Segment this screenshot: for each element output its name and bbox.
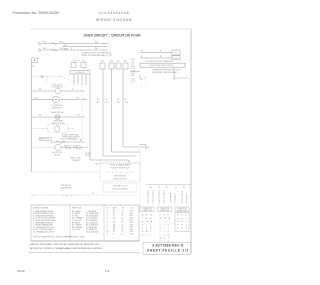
svg-text:WIRE RECEPT.: WIRE RECEPT. xyxy=(61,185,72,187)
svg-text:P2: P2 xyxy=(96,164,98,166)
svg-text:14: 14 xyxy=(122,231,124,233)
svg-text:10 W: 10 W xyxy=(132,81,136,83)
svg-text:BK: BK xyxy=(117,99,119,101)
svg-text:BK: BK xyxy=(125,99,127,101)
svg-text:RL3: RL3 xyxy=(101,61,104,63)
svg-text:P1: P1 xyxy=(144,78,146,80)
svg-text:WIRE CODE: WIRE CODE xyxy=(72,208,81,210)
svg-text:RL5: RL5 xyxy=(117,61,120,63)
svg-text:ATTENTION: COUPER LE COURANT A: ATTENTION: COUPER LE COURANT AVANT D'ENT… xyxy=(30,247,103,250)
svg-text:ELEMENT: ELEMENT xyxy=(72,160,79,162)
svg-text:07/08: 07/08 xyxy=(17,269,25,273)
svg-text:PK - PINK WIRE: PK - PINK WIRE xyxy=(86,215,98,217)
svg-text:OVEN DOOR: OVEN DOOR xyxy=(52,84,63,86)
svg-text:BK-2: BK-2 xyxy=(73,145,77,147)
svg-text:4 1 2: 4 1 2 xyxy=(142,234,152,236)
svg-text:W-2: W-2 xyxy=(77,115,80,117)
svg-text:MOTOR: MOTOR xyxy=(54,155,61,157)
svg-text:1: 1 xyxy=(107,211,108,213)
svg-text:RL1: RL1 xyxy=(73,61,76,63)
svg-text:CLK2: CLK2 xyxy=(174,58,178,60)
svg-text:4 1 4: 4 1 4 xyxy=(177,215,187,217)
svg-text:BK LOCK: BK LOCK xyxy=(85,153,91,155)
svg-text:P8: P8 xyxy=(158,187,160,189)
svg-text:WIRING DIAGRAM: WIRING DIAGRAM xyxy=(96,18,132,22)
svg-text:3 - OVEN SENSOR PROBE: 3 - OVEN SENSOR PROBE xyxy=(33,215,53,217)
svg-text:Y-1: Y-1 xyxy=(86,147,88,149)
svg-text:5: 5 xyxy=(107,220,108,222)
svg-text:SWITCH: SWITCH xyxy=(85,155,91,157)
svg-text:1 4 R: 1 4 R xyxy=(142,228,153,230)
svg-text:K 2 4: K 2 4 xyxy=(160,234,170,236)
svg-text:V - VIOLET: V - VIOLET xyxy=(72,229,80,231)
svg-text:CONNECTEUR: CONNECTEUR xyxy=(142,210,152,212)
svg-text:CFC3348409B: CFC3348409B xyxy=(98,11,129,15)
svg-text:4: 4 xyxy=(107,217,108,219)
svg-text:BK-2: BK-2 xyxy=(60,48,64,50)
svg-text:4 1 4: 4 1 4 xyxy=(160,241,170,243)
svg-text:14: 14 xyxy=(122,211,124,213)
svg-text:CONNECTEUR: CONNECTEUR xyxy=(177,210,187,212)
svg-text:1 2 3 4 5 6 7 8 9 10: 1 2 3 4 5 6 7 8 9 10 xyxy=(107,172,133,174)
svg-text:K 2 2: K 2 2 xyxy=(142,224,152,226)
svg-text:BK: BK xyxy=(97,99,99,101)
svg-text:CW.28: CW.28 xyxy=(105,102,109,104)
svg-text:W-2: W-2 xyxy=(76,97,79,99)
svg-text:T1 T2 T3: T1 T2 T3 xyxy=(62,196,72,198)
svg-text:BK-1: BK-1 xyxy=(60,42,64,44)
svg-text:K 1 K: K 1 K xyxy=(160,221,171,223)
svg-text:BK: BK xyxy=(106,99,108,101)
svg-text:Publication No: 5995434099: Publication No: 5995434099 xyxy=(13,11,59,15)
svg-text:RL2: RL2 xyxy=(83,61,86,63)
svg-text:14: 14 xyxy=(122,229,124,231)
svg-text:BR - BROWN: BR - BROWN xyxy=(72,227,83,229)
svg-text:Y - YELLOW: Y - YELLOW xyxy=(72,220,82,222)
svg-text:11: 11 xyxy=(107,233,109,235)
svg-text:4 2 1: 4 2 1 xyxy=(160,228,170,230)
svg-text:CODE: CODE xyxy=(112,208,116,210)
svg-text:2 - BROIL ELEMENT 3400W: 2 - BROIL ELEMENT 3400W xyxy=(33,213,54,215)
svg-text:14: 14 xyxy=(122,224,124,226)
svg-text:R-1: R-1 xyxy=(64,45,67,47)
svg-text:BROIL ELEMENT W-2: BROIL ELEMENT W-2 xyxy=(60,139,76,141)
svg-text:14: 14 xyxy=(122,217,124,219)
svg-text:K1 K2 K3 K4: K1 K2 K3 K4 xyxy=(75,72,84,74)
svg-text:R R 2: R R 2 xyxy=(177,224,188,226)
svg-text:7 BK: 7 BK xyxy=(132,73,135,75)
svg-text:—: — xyxy=(50,56,52,58)
svg-text:W 4 R: W 4 R xyxy=(160,238,171,240)
svg-text:4: 4 xyxy=(141,86,142,88)
svg-text:K R 4: K R 4 xyxy=(177,221,188,223)
svg-text:BU - BLUE: BU - BLUE xyxy=(72,222,80,224)
svg-text:1-6: 1-6 xyxy=(105,269,110,273)
svg-text:BK-1: BK-1 xyxy=(43,42,47,44)
svg-text:14: 14 xyxy=(122,222,124,224)
svg-text:4 BK: 4 BK xyxy=(132,66,135,68)
svg-text:CW.28: CW.28 xyxy=(116,102,120,104)
svg-text:P9: P9 xyxy=(166,187,168,189)
svg-text:14: 14 xyxy=(122,213,124,215)
svg-text:3: 3 xyxy=(103,50,104,52)
svg-text:SONDE DU FOUR: SONDE DU FOUR xyxy=(113,178,127,180)
svg-text:R W 4: R W 4 xyxy=(177,228,188,230)
svg-text:COL: COL xyxy=(130,208,133,210)
svg-text:1 1 4: 1 1 4 xyxy=(160,231,170,233)
svg-text:P4: P4 xyxy=(183,187,185,189)
svg-text:14: 14 xyxy=(122,215,124,217)
svg-text:CONNECTEUR: CONNECTEUR xyxy=(160,210,170,212)
svg-text:W-2: W-2 xyxy=(95,48,98,50)
svg-text:3-82T1888 REV:A: 3-82T1888 REV:A xyxy=(152,244,184,248)
svg-text:W - WHITE: W - WHITE xyxy=(72,213,80,215)
svg-text:14: 14 xyxy=(122,220,124,222)
svg-text:9: 9 xyxy=(107,229,108,231)
svg-text:9 BK: 9 BK xyxy=(132,79,135,81)
svg-text:CONNECTOR: CONNECTOR xyxy=(143,208,152,210)
svg-text:10: 10 xyxy=(107,231,109,233)
svg-text:W W A: W W A xyxy=(160,217,172,220)
svg-text:2: 2 xyxy=(107,213,108,215)
svg-text:8: 8 xyxy=(107,227,108,229)
svg-text:CONVECTION: CONVECTION xyxy=(52,105,63,107)
svg-text:3: 3 xyxy=(107,215,108,217)
svg-text:A B B: A B B xyxy=(142,214,153,217)
svg-text:LEGEND / LEGENDE: LEGEND / LEGENDE xyxy=(33,208,49,210)
svg-text:T: T xyxy=(145,86,146,88)
svg-text:4 W 1: 4 W 1 xyxy=(177,218,188,220)
svg-text:P5: P5 xyxy=(150,187,152,189)
svg-text:14: 14 xyxy=(122,227,124,229)
svg-text:A A 1: A A 1 xyxy=(142,230,152,233)
svg-text:1 K R: 1 K R xyxy=(142,218,153,220)
svg-text:6: 6 xyxy=(107,222,108,224)
svg-text:BK-2: BK-2 xyxy=(35,97,39,99)
svg-text:W-1: W-1 xyxy=(95,42,98,44)
svg-text:L2: L2 xyxy=(70,48,72,50)
svg-text:BROIL / GRILL: BROIL / GRILL xyxy=(71,158,81,160)
svg-text:2 K K: 2 K K xyxy=(160,215,171,217)
svg-text:INTER. DE VERROUILLAGE N.O. –: INTER. DE VERROUILLAGE N.O. – P7 xyxy=(82,54,112,57)
svg-text:DOOR LOCK: DOOR LOCK xyxy=(52,152,63,154)
svg-text:RL6: RL6 xyxy=(124,61,127,63)
svg-text:4: 4 xyxy=(186,76,187,78)
svg-text:CAUTION: DISCONNECT ELECTRICAL: CAUTION: DISCONNECT ELECTRICAL POWER BEF… xyxy=(30,243,101,246)
svg-text:OVEN SENSOR: OVEN SENSOR xyxy=(114,176,127,178)
svg-text:GN - GREEN: GN - GREEN xyxy=(72,225,82,227)
svg-text:CW.28: CW.28 xyxy=(96,102,100,104)
svg-text:P3: P3 xyxy=(175,187,177,189)
svg-text:R - RED: R - RED xyxy=(72,215,79,217)
svg-text:7: 7 xyxy=(107,224,108,226)
svg-text:14: 14 xyxy=(122,233,124,235)
svg-text:BK-2: BK-2 xyxy=(43,48,47,50)
svg-text:ELECTRONIC OVEN CONTROL: ELECTRONIC OVEN CONTROL xyxy=(150,65,174,67)
svg-text:1 BK: 1 BK xyxy=(132,59,135,61)
svg-text:CONNECTOR: CONNECTOR xyxy=(160,208,169,210)
svg-text:SHEET:FEUILLE:1/2: SHEET:FEUILLE:1/2 xyxy=(147,249,189,253)
svg-text:CLK: CLK xyxy=(175,52,178,54)
svg-text:R W A: R W A xyxy=(142,220,153,223)
svg-text:OVEN LIGHT SW: OVEN LIGHT SW xyxy=(51,112,64,114)
svg-text:OVEN CIRCUIT :: CIRCUIT DU FOU: OVEN CIRCUIT :: CIRCUIT DU FOUR xyxy=(84,34,142,38)
svg-text:K 1 K: K 1 K xyxy=(160,224,171,226)
svg-text:CONNECTOR: CONNECTOR xyxy=(178,208,187,210)
svg-text:CW.28: CW.28 xyxy=(124,102,128,104)
svg-text:RL4: RL4 xyxy=(110,61,113,63)
